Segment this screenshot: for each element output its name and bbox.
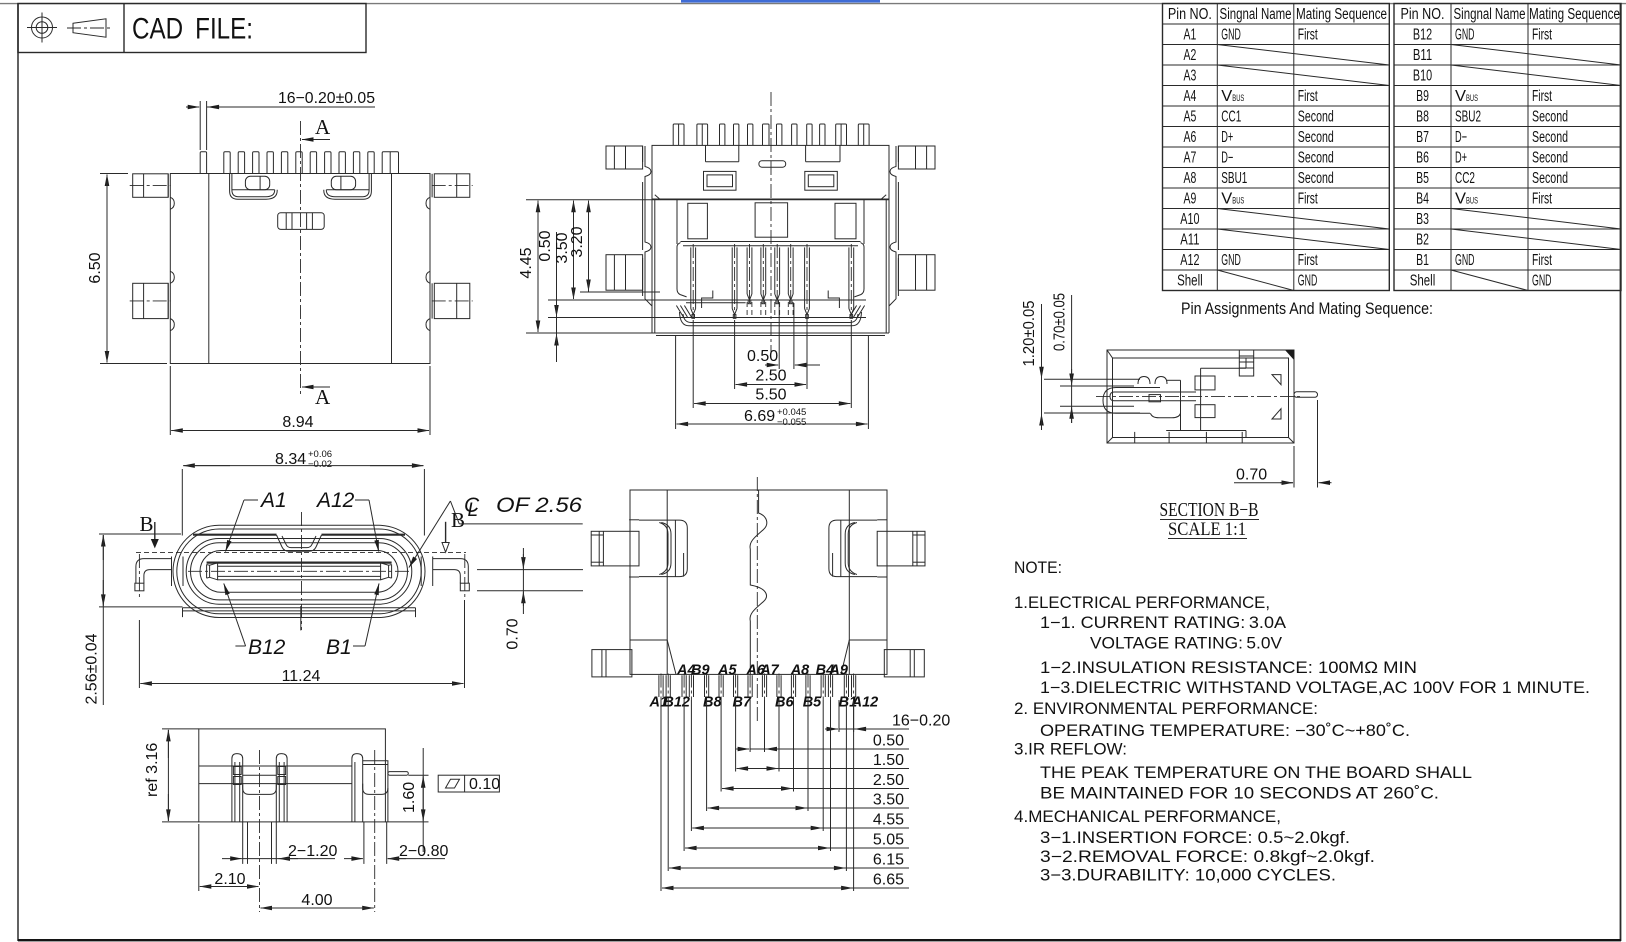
svg-text:−0.055: −0.055 <box>777 417 806 428</box>
svg-text:B12: B12 <box>1413 27 1432 44</box>
svg-text:V: V <box>1455 190 1467 207</box>
svg-text:6.65: 6.65 <box>873 872 904 889</box>
svg-text:3−3.DURABILITY: 10,000 CYCLES.: 3−3.DURABILITY: 10,000 CYCLES. <box>1040 867 1336 885</box>
svg-text:2.10: 2.10 <box>214 871 245 888</box>
svg-text:B12: B12 <box>663 695 690 711</box>
svg-text:A7: A7 <box>1184 149 1197 166</box>
svg-text:1.ELECTRICAL PERFORMANCE,: 1.ELECTRICAL PERFORMANCE, <box>1014 594 1270 612</box>
svg-text:Pin Assignments And Mating Seq: Pin Assignments And Mating Sequence: <box>1181 299 1433 318</box>
svg-text:A: A <box>315 115 331 139</box>
svg-text:SECTION B−B: SECTION B−B <box>1160 499 1259 521</box>
svg-text:Second: Second <box>1298 170 1334 187</box>
svg-text:2.50: 2.50 <box>755 368 786 385</box>
svg-text:B5: B5 <box>803 695 822 711</box>
svg-text:1.50: 1.50 <box>873 752 904 769</box>
svg-text:B9: B9 <box>1416 88 1429 105</box>
svg-text:0.70±0.05: 0.70±0.05 <box>1052 293 1069 351</box>
svg-text:Second: Second <box>1532 129 1568 146</box>
svg-text:First: First <box>1532 252 1552 269</box>
svg-text:A5: A5 <box>717 662 737 678</box>
svg-text:0.50: 0.50 <box>747 348 778 365</box>
svg-text:2. ENVIRONMENTAL PERFORMANCE:: 2. ENVIRONMENTAL PERFORMANCE: <box>1014 700 1318 718</box>
svg-text:A12: A12 <box>851 695 879 711</box>
svg-text:SBU1: SBU1 <box>1221 170 1247 187</box>
svg-text:B6: B6 <box>775 695 794 711</box>
svg-text:1.60: 1.60 <box>401 782 418 813</box>
svg-text:BE MAINTAINED FOR 10 SECONDS A: BE MAINTAINED FOR 10 SECONDS AT 260˚C. <box>1040 785 1439 803</box>
svg-text:B7: B7 <box>1416 129 1429 146</box>
svg-text:A12: A12 <box>1180 252 1199 269</box>
svg-text:VOLTAGE RATING: 5.0V: VOLTAGE RATING: 5.0V <box>1090 635 1282 653</box>
svg-text:CAD FILE:: CAD FILE: <box>132 13 253 46</box>
svg-text:A3: A3 <box>1184 68 1197 85</box>
svg-text:2−0.80: 2−0.80 <box>399 843 448 860</box>
svg-text:0.70: 0.70 <box>505 618 522 649</box>
svg-text:A1: A1 <box>259 489 287 512</box>
svg-text:B5: B5 <box>1416 170 1429 187</box>
svg-text:A9: A9 <box>1184 190 1197 207</box>
svg-text:0.70: 0.70 <box>1236 467 1267 484</box>
svg-text:A10: A10 <box>1180 211 1199 228</box>
svg-text:0.10: 0.10 <box>469 776 500 793</box>
svg-text:5.50: 5.50 <box>755 387 786 404</box>
svg-text:First: First <box>1298 190 1318 207</box>
svg-text:BUS: BUS <box>1466 93 1478 103</box>
svg-text:B2: B2 <box>1416 231 1429 248</box>
svg-text:Pin NO.: Pin NO. <box>1401 6 1445 23</box>
svg-text:2.56±0.04: 2.56±0.04 <box>84 633 101 704</box>
svg-text:3.20: 3.20 <box>569 226 586 257</box>
svg-text:2.50: 2.50 <box>873 772 904 789</box>
svg-text:Singnal Name: Singnal Name <box>1220 6 1292 23</box>
svg-text:Singnal Name: Singnal Name <box>1454 6 1526 23</box>
svg-text:2−1.20: 2−1.20 <box>288 843 337 860</box>
svg-text:BUS: BUS <box>1466 195 1478 205</box>
svg-text:V: V <box>1455 88 1467 105</box>
svg-text:GND: GND <box>1532 272 1552 289</box>
svg-text:Pin NO.: Pin NO. <box>1168 6 1212 23</box>
svg-text:16−0.20±0.05: 16−0.20±0.05 <box>278 90 375 107</box>
svg-text:First: First <box>1532 190 1552 207</box>
svg-text:B8: B8 <box>703 695 722 711</box>
svg-text:A: A <box>315 385 331 409</box>
svg-text:Shell: Shell <box>1410 272 1436 289</box>
svg-text:11.24: 11.24 <box>282 668 321 685</box>
svg-text:B4: B4 <box>1416 190 1429 207</box>
svg-text:A5: A5 <box>1184 109 1197 126</box>
svg-text:0.50: 0.50 <box>873 733 904 750</box>
svg-text:A11: A11 <box>1180 231 1199 248</box>
svg-text:D+: D+ <box>1221 129 1233 146</box>
svg-text:First: First <box>1298 88 1318 105</box>
svg-text:4.00: 4.00 <box>301 892 332 909</box>
svg-text:A9: A9 <box>828 662 848 678</box>
svg-text:OPERATING TEMPERATURE: −30˚C~+: OPERATING TEMPERATURE: −30˚C~+80˚C. <box>1040 722 1410 740</box>
svg-text:V: V <box>1221 88 1233 105</box>
svg-text:D+: D+ <box>1455 149 1467 166</box>
svg-text:A8: A8 <box>790 662 810 678</box>
svg-text:GND: GND <box>1298 272 1318 289</box>
svg-text:6.50: 6.50 <box>87 252 104 283</box>
svg-text:Second: Second <box>1298 129 1334 146</box>
svg-text:GND: GND <box>1221 252 1241 269</box>
svg-text:First: First <box>1298 27 1318 44</box>
svg-text:3−2.REMOVAL FORCE: 0.8kgf~2.0k: 3−2.REMOVAL FORCE: 0.8kgf~2.0kgf. <box>1040 848 1375 866</box>
svg-text:B: B <box>140 512 154 536</box>
svg-text:3.50: 3.50 <box>873 792 904 809</box>
svg-text:D−: D− <box>1455 129 1467 146</box>
svg-text:First: First <box>1532 88 1552 105</box>
svg-text:BUS: BUS <box>1232 93 1244 103</box>
svg-text:B1: B1 <box>1416 252 1429 269</box>
svg-text:6.69: 6.69 <box>744 408 775 425</box>
svg-text:CC2: CC2 <box>1455 170 1475 187</box>
svg-text:B1: B1 <box>326 636 352 659</box>
svg-text:Shell: Shell <box>1177 272 1203 289</box>
svg-text:NOTE:: NOTE: <box>1014 559 1062 577</box>
svg-text:L: L <box>468 500 479 521</box>
svg-text:THE PEAK TEMPERATURE ON THE BO: THE PEAK TEMPERATURE ON THE BOARD SHALL <box>1040 764 1472 782</box>
svg-text:V: V <box>1221 190 1233 207</box>
svg-text:B9: B9 <box>691 662 710 678</box>
svg-text:16−0.20: 16−0.20 <box>892 713 950 730</box>
svg-text:6.15: 6.15 <box>873 852 904 869</box>
svg-text:Second: Second <box>1298 109 1334 126</box>
svg-text:B10: B10 <box>1413 68 1432 85</box>
svg-text:B6: B6 <box>1416 149 1429 166</box>
svg-text:D−: D− <box>1221 149 1233 166</box>
svg-text:4.55: 4.55 <box>873 812 904 829</box>
svg-text:A2: A2 <box>1184 47 1197 64</box>
svg-text:GND: GND <box>1455 252 1475 269</box>
svg-text:1.20±0.05: 1.20±0.05 <box>1021 300 1038 366</box>
svg-text:Second: Second <box>1532 109 1568 126</box>
svg-text:A7: A7 <box>759 662 779 678</box>
svg-text:A12: A12 <box>315 489 355 512</box>
svg-text:4.45: 4.45 <box>518 247 535 278</box>
svg-text:5.05: 5.05 <box>873 832 904 849</box>
svg-text:A8: A8 <box>1184 170 1197 187</box>
svg-text:8.94: 8.94 <box>282 414 313 431</box>
svg-text:1−3.DIELECTRIC WITHSTAND VOLTA: 1−3.DIELECTRIC WITHSTAND VOLTAGE,AC 100V… <box>1040 679 1590 697</box>
svg-text:0.50: 0.50 <box>537 230 554 261</box>
svg-text:A6: A6 <box>1184 129 1197 146</box>
svg-text:1−1. CURRENT RATING: 3.0A: 1−1. CURRENT RATING: 3.0A <box>1040 614 1286 632</box>
svg-text:3−1.INSERTION FORCE: 0.5~2.0kg: 3−1.INSERTION FORCE: 0.5~2.0kgf. <box>1040 829 1350 847</box>
svg-text:B12: B12 <box>248 636 286 659</box>
svg-text:CC1: CC1 <box>1221 109 1241 126</box>
svg-text:First: First <box>1532 27 1552 44</box>
svg-text:ref 3.16: ref 3.16 <box>144 743 161 797</box>
svg-text:GND: GND <box>1455 27 1475 44</box>
svg-text:OF 2.56: OF 2.56 <box>496 494 582 517</box>
svg-text:Mating Sequence: Mating Sequence <box>1529 6 1620 23</box>
svg-text:B8: B8 <box>1416 109 1429 126</box>
svg-text:3.IR REFLOW:: 3.IR REFLOW: <box>1014 741 1127 759</box>
svg-text:Second: Second <box>1532 170 1568 187</box>
svg-text:1−2.INSULATION RESISTANCE: 100: 1−2.INSULATION RESISTANCE: 100MΩ MIN <box>1040 659 1417 677</box>
svg-text:A4: A4 <box>1184 88 1197 105</box>
svg-text:Second: Second <box>1532 149 1568 166</box>
svg-text:−0.02: −0.02 <box>308 459 332 470</box>
svg-text:B3: B3 <box>1416 211 1429 228</box>
svg-text:SBU2: SBU2 <box>1455 109 1481 126</box>
svg-text:BUS: BUS <box>1232 195 1244 205</box>
svg-text:8.34: 8.34 <box>275 451 306 468</box>
svg-text:Mating Sequence: Mating Sequence <box>1296 6 1387 23</box>
svg-text:First: First <box>1298 252 1318 269</box>
svg-text:Second: Second <box>1298 149 1334 166</box>
svg-text:SCALE 1:1: SCALE 1:1 <box>1168 519 1246 540</box>
svg-text:GND: GND <box>1221 27 1241 44</box>
svg-text:B11: B11 <box>1413 47 1432 64</box>
svg-text:4.MECHANICAL PERFORMANCE,: 4.MECHANICAL PERFORMANCE, <box>1014 808 1281 826</box>
svg-text:A1: A1 <box>1184 27 1197 44</box>
